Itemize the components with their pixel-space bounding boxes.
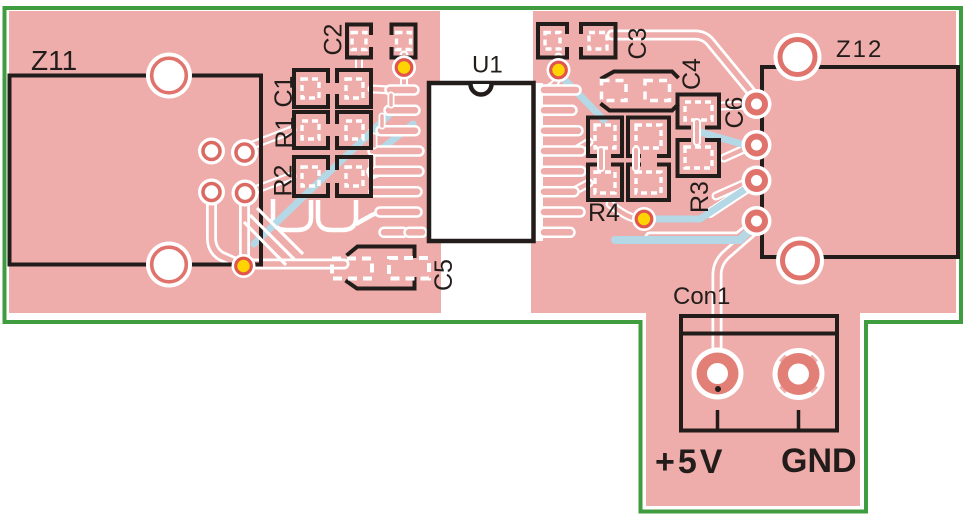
trace via2 stub	[724, 149, 744, 158]
svg-text:C4: C4	[678, 58, 706, 90]
svg-text:R4: R4	[588, 199, 620, 227]
U1 pad finger R8	[544, 227, 570, 239]
svg-text:C3: C3	[624, 28, 652, 60]
capacitor C3	[538, 24, 616, 58]
trace R3 inter-pad link	[632, 150, 640, 168]
svg-text:Con1: Con1	[673, 283, 730, 310]
svg-text:C5: C5	[430, 259, 458, 291]
svg-text:+5V: +5V	[655, 443, 725, 481]
U1 pad finger L6	[374, 186, 417, 198]
right via column via1	[742, 89, 772, 119]
yellow via near C3	[547, 58, 571, 82]
via cluster 3	[198, 179, 225, 206]
U1 pad finger L8a	[384, 227, 403, 239]
trace Con1 pin1 to via	[717, 232, 752, 378]
right via column via3	[742, 166, 772, 196]
U1 pad finger L7	[380, 206, 417, 218]
hole Z12 top	[774, 33, 822, 81]
trace via cluster to R2	[252, 176, 292, 191]
resistor R3 bottom pad	[628, 165, 669, 201]
IC U1 body	[429, 83, 534, 241]
svg-text:R1: R1	[271, 117, 299, 149]
U1 pad finger L5	[372, 166, 419, 178]
U1 pad finger R5	[544, 166, 581, 178]
via cluster 2	[231, 139, 258, 166]
clearance line diagonal c	[244, 222, 286, 265]
hole Z12 bottom	[776, 237, 824, 285]
clearance line diagonal b	[257, 208, 303, 254]
bottom-layer trace B (blue stub left)	[384, 124, 413, 147]
clearance line below R2 to fingers	[356, 210, 385, 224]
U1 pad finger L1	[390, 84, 414, 96]
capacitor C5	[332, 247, 429, 289]
clearance U below R2 right	[318, 200, 356, 230]
yellow via near R4	[632, 207, 656, 231]
wire chain link L3	[371, 136, 378, 146]
connector Z11	[10, 76, 262, 265]
clearance line diagonal a	[250, 215, 295, 260]
wire chain link L2	[379, 116, 386, 126]
connector Z12	[762, 67, 958, 257]
trace via1 to C6	[722, 105, 745, 106]
U1 pad finger R3	[544, 125, 578, 137]
yellow via near C2	[392, 56, 416, 80]
connector Con1 divider	[681, 332, 837, 336]
hole Z11 top	[146, 53, 192, 99]
trace C6 inter-pad link	[693, 122, 701, 142]
via cluster 1	[198, 138, 225, 165]
resistor R4 bottom pad	[588, 165, 622, 201]
trace R4 inter-pad link	[597, 150, 605, 168]
trace bottom feed to C5	[250, 259, 344, 270]
trace via cluster to R1	[250, 130, 292, 146]
svg-text:Z11: Z11	[31, 45, 77, 76]
trace via to U1 row1 right	[550, 77, 558, 87]
solder gap band above U1	[440, 10, 533, 83]
bottom-layer trace E (blue to via2)	[650, 184, 753, 219]
trace C3 right pad to via column	[612, 35, 754, 101]
capacitor C1	[294, 70, 371, 107]
trace C2 left pad down	[355, 59, 363, 68]
trace U1 right to R4 row a	[576, 142, 589, 150]
trace R2 to U1 pad row5	[372, 172, 379, 175]
clearance U below R2 left	[273, 199, 311, 230]
trace via4 horizontal	[650, 225, 753, 237]
U1 pad finger L2	[389, 105, 415, 117]
U1 pad finger R4	[544, 145, 581, 157]
capacitor C2	[347, 25, 416, 58]
via cluster 4	[232, 180, 259, 207]
svg-text:C1: C1	[270, 76, 298, 108]
trace Z11 via2 down-right	[212, 200, 240, 264]
svg-text:R3: R3	[686, 181, 714, 213]
wire chain link L1	[388, 95, 395, 105]
U1 pad finger R1	[544, 84, 576, 96]
hole Z11 bottom	[146, 242, 192, 288]
resistor R2	[294, 157, 371, 196]
trace R1 to U1 pad row3	[372, 131, 383, 132]
bottom-layer trace G (blue stub right top)	[563, 78, 604, 120]
solder gap band at U1	[427, 83, 543, 241]
capacitor C4	[601, 72, 679, 111]
trace via3 stub	[716, 184, 743, 196]
svg-text:Z12: Z12	[836, 36, 883, 63]
Con1 pin1 tick	[716, 410, 720, 429]
U1 pad finger L3	[381, 125, 415, 137]
resistor R4 top pad	[588, 118, 622, 157]
bottom-layer trace D (blue horizontal right)	[615, 224, 756, 240]
trace C2 pad to via	[400, 55, 409, 64]
IC U1 notch	[471, 84, 492, 95]
U1 pad finger R7	[544, 206, 580, 218]
svg-text:C2: C2	[320, 24, 348, 56]
trace C3 pad to via	[554, 57, 563, 66]
copper pour main	[9, 11, 956, 313]
trace Z11 via to bottom via (copper with clearance)	[244, 203, 245, 263]
U1 pad finger R2	[544, 105, 572, 117]
bottom-layer trace F (blue to via1)	[700, 132, 752, 147]
resistor R3 top pad	[628, 118, 669, 157]
U1 pad finger L4	[373, 145, 419, 157]
trace C1 to U1 pad row1	[372, 89, 391, 90]
svg-text:GND: GND	[781, 442, 857, 480]
connector Con1 box	[681, 316, 837, 431]
bottom-layer trace A (blue diagonal left)	[254, 115, 389, 244]
wire chain link L4	[369, 157, 376, 166]
svg-text:U1: U1	[472, 52, 503, 79]
trace U1 right to R4 row b	[576, 183, 589, 190]
U1 pad finger R6	[544, 186, 574, 198]
Con1 pin2 tick	[797, 410, 801, 429]
trace R4 pad to via	[610, 204, 634, 218]
Con1 pad1	[692, 348, 744, 400]
trace under blue to via2	[710, 186, 751, 213]
right via column via4	[742, 206, 772, 236]
yellow via at Z11 bottom	[232, 254, 256, 278]
svg-text:R2: R2	[270, 165, 298, 197]
U1 pad finger L8b	[409, 227, 422, 239]
trace via to U1 row1 left	[400, 76, 408, 84]
capacitor C6	[678, 95, 720, 177]
right via column via2	[742, 130, 772, 160]
copper pour tab	[646, 300, 860, 506]
solder gap band below U1	[441, 241, 531, 318]
Con1 pad2 with thermals	[773, 348, 825, 400]
resistor R1	[294, 112, 371, 148]
